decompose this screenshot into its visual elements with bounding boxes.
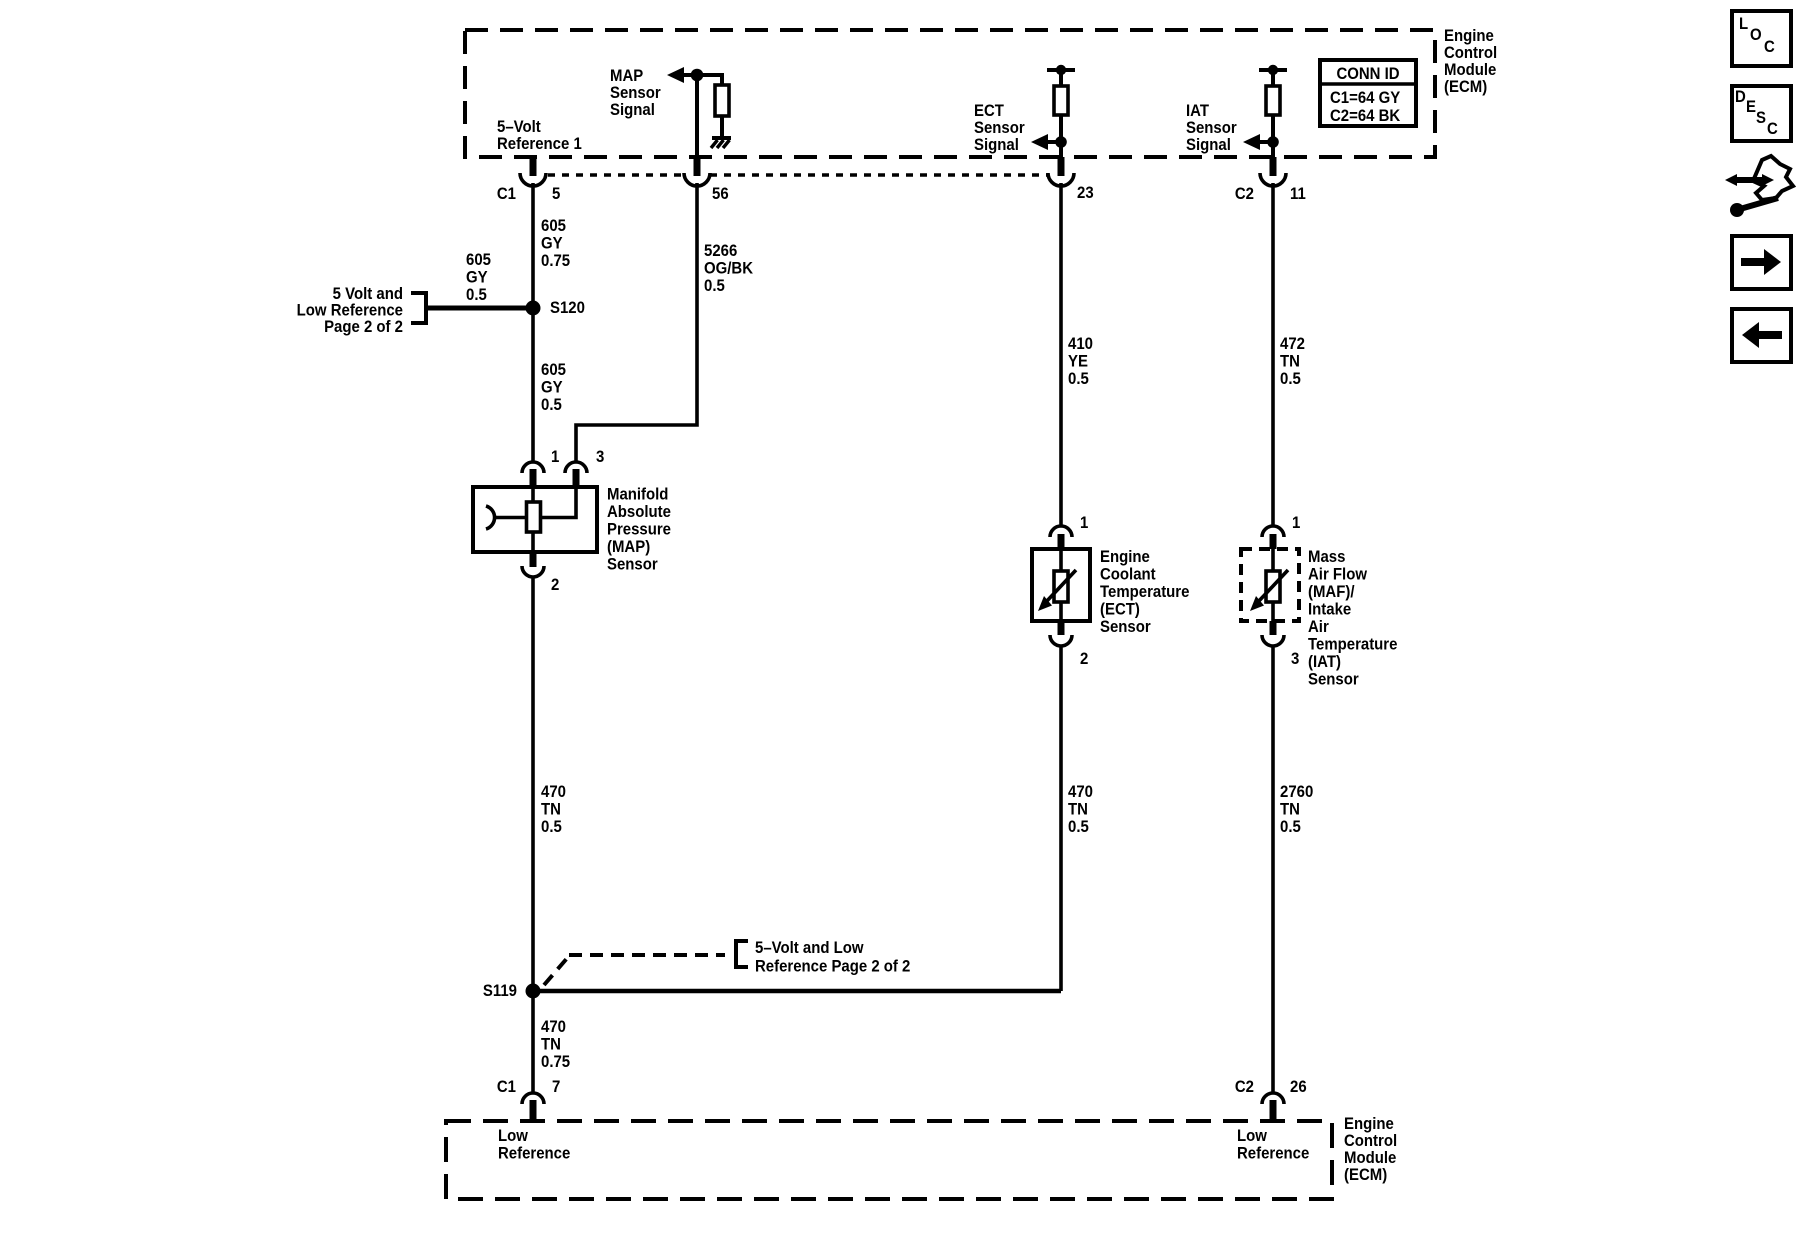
CONN ID box bbox=[1320, 60, 1416, 126]
svg-text:470: 470 bbox=[541, 1018, 566, 1036]
svg-text:Sensor: Sensor bbox=[1308, 671, 1359, 689]
splice S120 bbox=[526, 301, 541, 316]
wire to S120 bbox=[426, 306, 533, 311]
svg-text:3: 3 bbox=[1291, 650, 1299, 668]
svg-text:7: 7 bbox=[552, 1078, 560, 1096]
svg-text:Control: Control bbox=[1444, 44, 1497, 62]
svg-text:23: 23 bbox=[1077, 184, 1094, 202]
wire IAT T to resistor bbox=[1271, 70, 1275, 86]
svg-text:0.5: 0.5 bbox=[704, 277, 725, 295]
svg-text:Absolute: Absolute bbox=[607, 503, 671, 521]
MAP pressure port arc bbox=[486, 506, 495, 529]
svg-text:1: 1 bbox=[551, 448, 559, 466]
wire 2760 TN 0.5 (IAT pin3 to C2-26) bbox=[1271, 645, 1275, 1094]
svg-text:(MAP): (MAP) bbox=[607, 538, 650, 556]
svg-text:TN: TN bbox=[541, 1036, 561, 1054]
svg-text:D: D bbox=[1735, 88, 1746, 106]
MAP sensor pin 2 bbox=[522, 552, 559, 594]
svg-text:Reference: Reference bbox=[1237, 1145, 1309, 1163]
wire 470 TN 0.5 (ECT pin2 to S119) bbox=[1059, 645, 1063, 991]
resistor in ECM (MAP pull-up) bbox=[715, 85, 729, 116]
svg-text:26: 26 bbox=[1290, 1078, 1307, 1096]
pin 56 (MAP Sensor Signal) bbox=[684, 157, 729, 203]
svg-text:605: 605 bbox=[466, 251, 491, 269]
svg-text:Reference Page 2 of 2: Reference Page 2 of 2 bbox=[755, 958, 910, 976]
svg-text:Low: Low bbox=[498, 1127, 528, 1145]
svg-text:Signal: Signal bbox=[1186, 136, 1231, 154]
wire 410 YE 0.5 (pin 23 to ECT pin 1) bbox=[1059, 183, 1063, 526]
svg-text:470: 470 bbox=[541, 783, 566, 801]
svg-text:Coolant: Coolant bbox=[1100, 566, 1156, 584]
svg-text:(ECM): (ECM) bbox=[1344, 1166, 1387, 1184]
svg-text:C2: C2 bbox=[1235, 1078, 1254, 1096]
svg-text:MAP: MAP bbox=[610, 67, 644, 85]
MAP sensor pin 1 bbox=[522, 448, 559, 487]
svg-text:Control: Control bbox=[1344, 1132, 1397, 1150]
svg-text:C2: C2 bbox=[1235, 185, 1254, 203]
svg-text:Intake: Intake bbox=[1308, 601, 1351, 619]
IAT internal T-bar bbox=[1259, 68, 1287, 72]
MAP internal wire port to resistor bbox=[495, 516, 527, 520]
svg-text:Air: Air bbox=[1308, 618, 1329, 636]
svg-text:TN: TN bbox=[541, 801, 561, 819]
IAT thermistor bbox=[1250, 549, 1288, 621]
svg-text:2: 2 bbox=[551, 576, 559, 594]
svg-text:Pressure: Pressure bbox=[607, 521, 671, 539]
svg-text:Engine: Engine bbox=[1100, 548, 1150, 566]
wire 472 TN 0.5 (pin 11 to IAT pin 1) bbox=[1271, 183, 1275, 526]
svg-text:Reference: Reference bbox=[498, 1145, 570, 1163]
svg-text:2: 2 bbox=[1080, 650, 1088, 668]
svg-text:605: 605 bbox=[541, 361, 566, 379]
svg-text:0.5: 0.5 bbox=[466, 286, 487, 304]
pin C1-7 (Low Reference) bbox=[497, 1078, 561, 1121]
svg-text:1: 1 bbox=[1292, 514, 1300, 532]
svg-text:472: 472 bbox=[1280, 335, 1305, 353]
svg-text:(ECM): (ECM) bbox=[1444, 78, 1487, 96]
svg-text:Low: Low bbox=[1237, 1127, 1267, 1145]
ECT sensor box bbox=[1032, 549, 1090, 621]
wire 470 TN 0.5 (MAP pin2 to S119) bbox=[531, 576, 535, 991]
svg-text:L: L bbox=[1739, 15, 1748, 33]
svg-text:Sensor: Sensor bbox=[610, 84, 661, 102]
pin C2-26 (Low Reference) bbox=[1235, 1078, 1307, 1121]
svg-text:5–Volt and Low: 5–Volt and Low bbox=[755, 939, 864, 957]
svg-text:Signal: Signal bbox=[974, 136, 1019, 154]
MAP sensor pin 3 bbox=[565, 448, 604, 487]
svg-text:GY: GY bbox=[541, 379, 563, 397]
ground symbol bbox=[711, 138, 731, 148]
svg-text:CONN ID: CONN ID bbox=[1336, 65, 1399, 83]
bracket (S119 reference) bbox=[736, 941, 748, 967]
icon: back arrow button bbox=[1732, 309, 1791, 362]
svg-text:S119: S119 bbox=[483, 982, 517, 1000]
svg-text:Manifold: Manifold bbox=[607, 486, 668, 504]
wire 605 GY 0.75 (pin5 to S120) bbox=[531, 183, 535, 462]
svg-text:Mass: Mass bbox=[1308, 548, 1345, 566]
svg-text:IAT: IAT bbox=[1186, 102, 1209, 120]
wire IAT resistor to pin 11 bbox=[1271, 115, 1275, 158]
svg-text:Sensor: Sensor bbox=[1186, 119, 1237, 137]
junction dot IAT T bbox=[1268, 65, 1278, 75]
svg-text:3: 3 bbox=[596, 448, 604, 466]
junction dot ECT signal bbox=[1055, 136, 1067, 148]
MAP internal wires bbox=[531, 487, 535, 502]
svg-text:0.75: 0.75 bbox=[541, 252, 570, 270]
svg-text:0.5: 0.5 bbox=[1068, 818, 1089, 836]
svg-text:ECT: ECT bbox=[974, 102, 1004, 120]
svg-text:Air Flow: Air Flow bbox=[1308, 566, 1367, 584]
svg-text:(ECT): (ECT) bbox=[1100, 601, 1140, 619]
svg-text:C1: C1 bbox=[497, 1078, 516, 1096]
wire 470 TN 0.75 (S119 to C1-7) bbox=[531, 991, 535, 1094]
wire 5266 OG/BK 0.5 (pin 56 to MAP pin 3) bbox=[576, 183, 697, 462]
svg-text:YE: YE bbox=[1068, 353, 1088, 371]
svg-text:0.5: 0.5 bbox=[541, 396, 562, 414]
ECT thermistor bbox=[1038, 549, 1076, 621]
svg-text:605: 605 bbox=[541, 217, 566, 235]
svg-text:(MAF)/: (MAF)/ bbox=[1308, 583, 1355, 601]
junction dot MAP signal bbox=[691, 69, 704, 82]
wire ECT resistor to pin 23 bbox=[1059, 115, 1063, 158]
svg-text:2760: 2760 bbox=[1280, 783, 1313, 801]
svg-text:0.5: 0.5 bbox=[1280, 370, 1301, 388]
IAT sensor dashed box bbox=[1241, 549, 1299, 621]
svg-text:O: O bbox=[1750, 26, 1762, 44]
splice S119 bbox=[526, 984, 541, 999]
svg-text:Temperature: Temperature bbox=[1308, 636, 1398, 654]
svg-text:0.5: 0.5 bbox=[541, 818, 562, 836]
svg-text:TN: TN bbox=[1280, 801, 1300, 819]
icon: LOC button bbox=[1732, 11, 1791, 66]
svg-text:11: 11 bbox=[1290, 185, 1306, 203]
ECM top dashed box bbox=[465, 30, 1435, 157]
svg-text:Sensor: Sensor bbox=[974, 119, 1025, 137]
ECT sensor pin 1 bbox=[1050, 514, 1088, 549]
wire: MAP signal to pin 56 bbox=[695, 75, 699, 158]
junction dot ECT T bbox=[1056, 65, 1066, 75]
MAP sensor box bbox=[473, 487, 597, 552]
svg-text:C2=64 BK: C2=64 BK bbox=[1330, 107, 1401, 125]
svg-text:S120: S120 bbox=[550, 299, 585, 317]
svg-text:Engine: Engine bbox=[1344, 1115, 1394, 1133]
svg-text:C: C bbox=[1767, 120, 1778, 138]
svg-text:0.5: 0.5 bbox=[1280, 818, 1301, 836]
svg-text:C1=64 GY: C1=64 GY bbox=[1330, 89, 1401, 107]
connector dotted line C1 bbox=[548, 173, 684, 177]
svg-text:5 Volt and: 5 Volt and bbox=[333, 285, 403, 303]
junction dot IAT signal bbox=[1267, 136, 1279, 148]
svg-text:Page 2 of 2: Page 2 of 2 bbox=[324, 318, 403, 336]
ECT internal T-bar bbox=[1047, 68, 1075, 72]
svg-text:1: 1 bbox=[1080, 514, 1088, 532]
MAP signal arrow bbox=[683, 75, 722, 85]
svg-text:Temperature: Temperature bbox=[1100, 583, 1190, 601]
ECM bottom dashed box bbox=[446, 1121, 1332, 1199]
svg-text:Module: Module bbox=[1444, 61, 1496, 79]
IAT sensor pin 3 bbox=[1262, 621, 1299, 668]
svg-text:OG/BK: OG/BK bbox=[704, 260, 753, 278]
wire ECT T to resistor bbox=[1059, 70, 1063, 86]
icon: next arrow button bbox=[1732, 236, 1791, 289]
svg-text:Sensor: Sensor bbox=[607, 556, 658, 574]
svg-text:5: 5 bbox=[552, 185, 560, 203]
svg-text:Low Reference: Low Reference bbox=[297, 302, 403, 320]
icon: DESC button bbox=[1732, 86, 1791, 141]
svg-text:Engine: Engine bbox=[1444, 27, 1494, 45]
svg-text:TN: TN bbox=[1068, 801, 1088, 819]
svg-text:S: S bbox=[1756, 109, 1766, 127]
svg-text:C1: C1 bbox=[497, 185, 516, 203]
pin 23 (ECT Sensor Signal) bbox=[1048, 157, 1094, 202]
svg-text:Signal: Signal bbox=[610, 101, 655, 119]
wire: resistor to ground bbox=[720, 116, 724, 137]
IAT signal arrow bbox=[1258, 140, 1273, 144]
wire: S119 to ECT low reference bbox=[533, 989, 1061, 994]
svg-text:0.5: 0.5 bbox=[1068, 370, 1089, 388]
node: 5-Volt and Low Reference Page 2 of 2 (S119) bbox=[544, 956, 569, 985]
ECT signal arrow bbox=[1046, 140, 1061, 144]
resistor in ECM (ECT pull-up) bbox=[1054, 86, 1068, 115]
svg-text:410: 410 bbox=[1068, 335, 1093, 353]
svg-text:0.75: 0.75 bbox=[541, 1053, 570, 1071]
svg-text:E: E bbox=[1746, 98, 1756, 116]
svg-text:Sensor: Sensor bbox=[1100, 618, 1151, 636]
svg-text:5–Volt: 5–Volt bbox=[497, 118, 541, 136]
svg-text:TN: TN bbox=[1280, 353, 1300, 371]
ECT sensor pin 2 bbox=[1050, 621, 1088, 668]
pin C1-5 (5-Volt Reference 1) bbox=[497, 157, 561, 203]
svg-text:Module: Module bbox=[1344, 1149, 1396, 1167]
svg-text:56: 56 bbox=[712, 185, 729, 203]
svg-text:(IAT): (IAT) bbox=[1308, 653, 1341, 671]
svg-text:470: 470 bbox=[1068, 783, 1093, 801]
svg-text:Reference 1: Reference 1 bbox=[497, 135, 582, 153]
IAT sensor pin 1 bbox=[1262, 514, 1300, 549]
icon: connector view tool bbox=[1725, 156, 1793, 217]
svg-text:GY: GY bbox=[466, 269, 488, 287]
MAP internal resistor bbox=[527, 502, 541, 532]
bracket (left reference) bbox=[411, 293, 426, 323]
svg-text:GY: GY bbox=[541, 235, 563, 253]
resistor in ECM (IAT pull-up) bbox=[1266, 86, 1280, 115]
svg-text:C: C bbox=[1764, 38, 1775, 56]
svg-text:5266: 5266 bbox=[704, 242, 737, 260]
pin C2-11 (IAT Sensor Signal) bbox=[1235, 157, 1306, 203]
